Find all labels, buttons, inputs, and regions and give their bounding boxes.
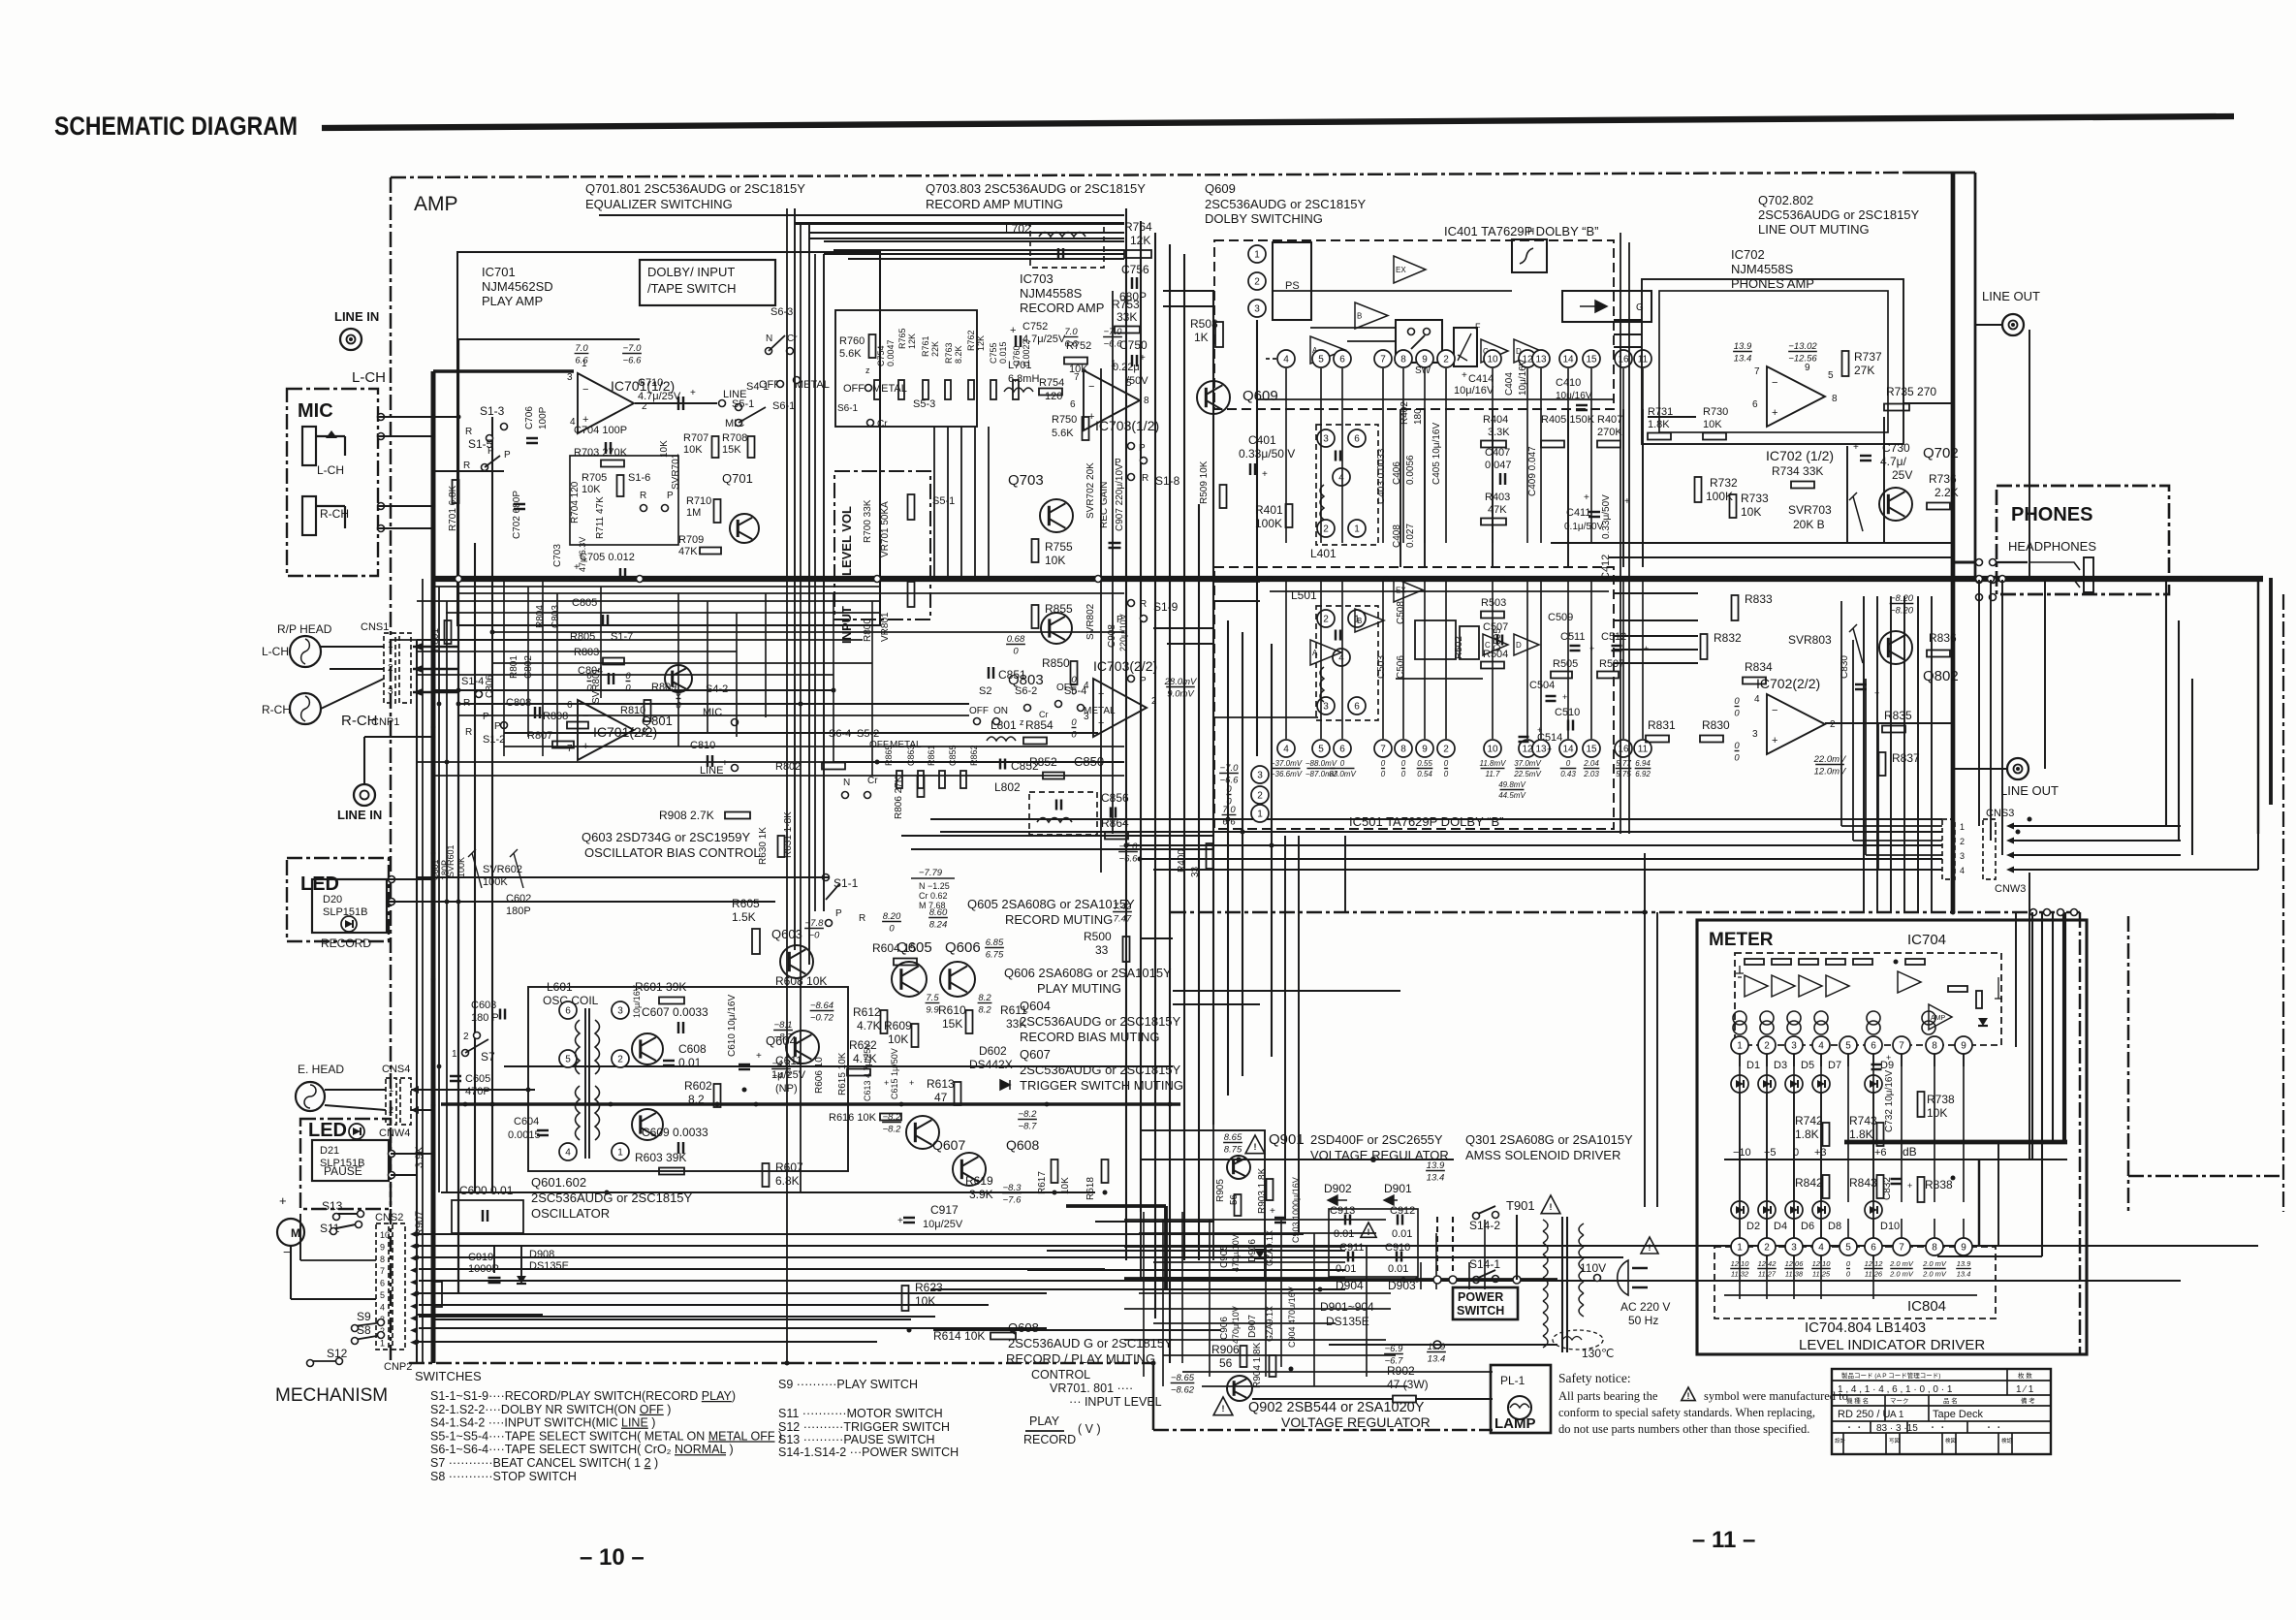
svg-text:0: 0 — [1340, 759, 1345, 768]
svg-text:R710: R710 — [686, 495, 711, 507]
svg-text:+: + — [1584, 492, 1589, 503]
svg-text:−8.2: −8.2 — [883, 1125, 901, 1135]
svg-text:DOLBY/ INPUT: DOLBY/ INPUT — [647, 265, 735, 279]
svg-text:SVR702 20K: SVR702 20K — [1085, 462, 1096, 519]
svg-text:M: M — [291, 1226, 300, 1240]
svg-text:R/P HEAD: R/P HEAD — [277, 622, 332, 636]
svg-text:0.22μ: 0.22μ — [1113, 362, 1140, 373]
svg-text:備 考: 備 考 — [2021, 1396, 2035, 1405]
svg-text:180 P: 180 P — [471, 1012, 499, 1024]
svg-text:R: R — [859, 913, 865, 924]
svg-text:C608: C608 — [678, 1042, 707, 1056]
svg-text:R837: R837 — [1892, 751, 1920, 765]
svg-text:2: 2 — [1257, 791, 1263, 802]
svg-text:3: 3 — [1323, 434, 1329, 445]
svg-text:−0: −0 — [809, 931, 821, 941]
svg-text:4: 4 — [565, 1148, 571, 1159]
svg-text:S1-1: S1-1 — [833, 876, 859, 890]
svg-text:Q607: Q607 — [932, 1137, 965, 1153]
svg-text:33K: 33K — [1117, 310, 1137, 324]
svg-text:IC702 (1/2): IC702 (1/2) — [1766, 448, 1834, 463]
svg-text:−8.65: −8.65 — [1171, 1373, 1195, 1383]
svg-text:R732: R732 — [1710, 476, 1738, 490]
svg-text:8.24: 8.24 — [929, 920, 948, 931]
svg-text:180P: 180P — [506, 905, 531, 917]
svg-text:3: 3 — [1791, 1041, 1797, 1052]
svg-text:R-CH: R-CH — [262, 703, 291, 716]
svg-text:IC401 TA7629P DOLBY “B”: IC401 TA7629P DOLBY “B” — [1444, 224, 1598, 238]
svg-text:MECHANISM: MECHANISM — [275, 1385, 388, 1406]
svg-text:5: 5 — [1828, 370, 1834, 381]
svg-text:−: − — [1088, 381, 1094, 393]
svg-text:RECORD BIAS MUTING: RECORD BIAS MUTING — [1020, 1030, 1159, 1044]
svg-text:C705 0.012: C705 0.012 — [580, 552, 635, 563]
svg-text:27K: 27K — [1854, 364, 1874, 377]
svg-text:+: + — [1270, 1206, 1275, 1217]
svg-text:−10: −10 — [1733, 1147, 1751, 1159]
svg-text:!: ! — [1222, 1404, 1225, 1414]
svg-text:0: 0 — [1734, 696, 1740, 707]
svg-text:枚 数: 枚 数 — [2018, 1371, 2032, 1380]
svg-text:S1-1~S1-9····RECORD/PLAY SWIT: S1-1~S1-9····RECORD/PLAY SWITCH(RECORD P… — [430, 1389, 736, 1403]
svg-text:D7: D7 — [1828, 1060, 1841, 1071]
svg-text:H: H — [1527, 227, 1534, 238]
svg-text:D21: D21 — [320, 1145, 339, 1157]
svg-text:2: 2 — [1323, 524, 1329, 535]
svg-text:R407: R407 — [1597, 414, 1622, 426]
svg-text:S6-2: S6-2 — [1015, 685, 1037, 697]
svg-text:5: 5 — [1845, 1243, 1851, 1254]
svg-text:C904 470μ/16V: C904 470μ/16V — [1287, 1286, 1297, 1348]
svg-text:SVR701: SVR701 — [671, 453, 681, 490]
svg-text:ON: ON — [993, 706, 1008, 716]
svg-text:3.3K: 3.3K — [1488, 427, 1510, 438]
svg-text:−5: −5 — [1764, 1147, 1777, 1159]
svg-text:Q601.602: Q601.602 — [531, 1175, 586, 1190]
svg-text:R705: R705 — [582, 472, 607, 484]
svg-text:S5-1: S5-1 — [932, 495, 955, 507]
svg-text:L-CH: L-CH — [352, 369, 386, 386]
svg-text:6: 6 — [1752, 399, 1758, 410]
svg-text:2.0 mV: 2.0 mV — [1889, 1259, 1914, 1268]
svg-text:1: 1 — [582, 359, 587, 369]
svg-text:−88.0mV: −88.0mV — [1305, 759, 1337, 768]
svg-text:0: 0 — [1734, 753, 1740, 764]
svg-text:3: 3 — [567, 372, 573, 383]
svg-text:0: 0 — [1381, 759, 1386, 768]
svg-text:N −1.25: N −1.25 — [919, 881, 950, 891]
svg-text:SVR803: SVR803 — [1788, 633, 1832, 647]
svg-text:S6-1: S6-1 — [772, 400, 795, 412]
svg-text:OSCILLATOR BIAS CONTROL: OSCILLATOR BIAS CONTROL — [584, 845, 761, 860]
svg-text:6: 6 — [1871, 1041, 1876, 1052]
svg-text:AMP: AMP — [1931, 1015, 1946, 1022]
svg-text:R700 33K: R700 33K — [863, 499, 873, 543]
svg-text:0: 0 — [1401, 759, 1406, 768]
svg-text:14: 14 — [1562, 745, 1574, 755]
svg-text:5: 5 — [565, 1055, 571, 1065]
svg-text:8.60: 8.60 — [929, 907, 948, 918]
svg-text:1: 1 — [388, 640, 393, 651]
svg-text:R750: R750 — [1052, 414, 1077, 426]
svg-text:A 1: A 1 — [1890, 1410, 1904, 1420]
svg-text:C615 1μ/50V: C615 1μ/50V — [890, 1048, 899, 1099]
svg-text:PLAY: PLAY — [1029, 1414, 1060, 1428]
svg-text:C511: C511 — [1560, 631, 1585, 643]
svg-text:S12 ··········TRIGGER SWITCH: S12 ··········TRIGGER SWITCH — [778, 1420, 950, 1434]
svg-text:10K: 10K — [1060, 1177, 1071, 1194]
svg-text:C754: C754 — [876, 345, 886, 366]
svg-text:+: + — [1262, 469, 1268, 480]
svg-text:R762: R762 — [966, 330, 976, 351]
svg-text:+: + — [1462, 370, 1467, 381]
svg-text:C613 4.7μ/25V: C613 4.7μ/25V — [863, 1043, 872, 1101]
svg-text:C508: C508 — [1396, 601, 1406, 624]
svg-text:R500: R500 — [1084, 930, 1112, 943]
svg-text:1: 1 — [1960, 822, 1965, 832]
svg-text:Q605 2SA608G or 2SA1015Y: Q605 2SA608G or 2SA1015Y — [967, 897, 1135, 911]
svg-text:−: − — [283, 1245, 291, 1259]
svg-text:−37.0mV: −37.0mV — [1271, 759, 1303, 768]
svg-text:12K: 12K — [907, 334, 917, 349]
svg-text:LED: LED — [300, 874, 339, 895]
svg-text:··· INPUT LEVEL: ··· INPUT LEVEL — [1069, 1395, 1162, 1409]
svg-text:4.7K: 4.7K — [857, 1019, 881, 1032]
svg-text:10K: 10K — [915, 1294, 935, 1308]
svg-text:2: 2 — [1254, 277, 1260, 288]
svg-text:10K: 10K — [1927, 1106, 1947, 1120]
svg-text:2SD400F or 2SC2655Y: 2SD400F or 2SC2655Y — [1310, 1132, 1443, 1147]
svg-text:47: 47 — [934, 1091, 948, 1104]
svg-text:SCHEMATIC DIAGRAM: SCHEMATIC DIAGRAM — [54, 111, 298, 141]
svg-text:EX: EX — [1396, 587, 1406, 595]
svg-text:10K: 10K — [888, 1032, 908, 1046]
svg-text:Q802: Q802 — [1923, 668, 1959, 684]
svg-text:C600 0.01: C600 0.01 — [459, 1184, 514, 1197]
svg-text:R731: R731 — [1648, 406, 1673, 418]
svg-text:83 · 3 ·15: 83 · 3 ·15 — [1876, 1423, 1918, 1434]
svg-text:0: 0 — [1734, 741, 1740, 751]
svg-text:9: 9 — [380, 1242, 385, 1252]
svg-text:R609: R609 — [884, 1019, 912, 1032]
svg-text:S11 ···········MOTOR SWITCH: S11 ···········MOTOR SWITCH — [778, 1407, 943, 1420]
svg-text:C405 10μ/16V: C405 10μ/16V — [1431, 423, 1442, 485]
svg-text:C756: C756 — [1121, 263, 1149, 276]
svg-text:4: 4 — [1283, 355, 1289, 365]
svg-text:R905: R905 — [1215, 1179, 1226, 1202]
svg-text:47K: 47K — [678, 546, 698, 557]
svg-text:S7 ···········BEAT CANCEL SW: S7 ···········BEAT CANCEL SWITCH( 1 2 ) — [430, 1456, 658, 1470]
svg-text:120: 120 — [1045, 391, 1062, 402]
svg-text:B: B — [1357, 617, 1362, 625]
svg-text:2SC536AUDG or 2SC1815Y: 2SC536AUDG or 2SC1815Y — [1020, 1014, 1181, 1029]
svg-text:2.2K: 2.2K — [1934, 486, 1959, 499]
svg-text:8.75: 8.75 — [1224, 1145, 1242, 1156]
svg-text:VOLTAGE REGULATOR: VOLTAGE REGULATOR — [1281, 1414, 1431, 1430]
svg-text:DS135E: DS135E — [1326, 1315, 1369, 1328]
svg-text:R862: R862 — [969, 745, 979, 766]
svg-text:R: R — [640, 491, 646, 501]
svg-text:R: R — [1140, 599, 1147, 610]
svg-text:4: 4 — [380, 1302, 385, 1312]
svg-text:0: 0 — [1071, 717, 1077, 728]
svg-text:2SC536AUDG or 2SC1815Y: 2SC536AUDG or 2SC1815Y — [1758, 207, 1920, 222]
svg-text:8: 8 — [642, 727, 647, 738]
svg-text:OSCILLATOR: OSCILLATOR — [531, 1206, 610, 1221]
svg-text:S8: S8 — [357, 1323, 371, 1337]
svg-text:C732 10μ/16V: C732 10μ/16V — [1884, 1070, 1895, 1132]
svg-text:470P: 470P — [465, 1086, 490, 1097]
svg-text:−7.79: −7.79 — [919, 868, 943, 878]
svg-text:−8.20: −8.20 — [1890, 606, 1914, 617]
svg-text:CNS4: CNS4 — [382, 1064, 410, 1075]
svg-text:INPUT: INPUT — [839, 606, 854, 644]
svg-text:0: 0 — [1013, 647, 1019, 657]
svg-text:IC501 TA7629P DOLBY “B”: IC501 TA7629P DOLBY “B” — [1349, 814, 1503, 829]
svg-text:8.2: 8.2 — [978, 1005, 991, 1016]
svg-text:R615 10K: R615 10K — [837, 1052, 848, 1096]
svg-text:270K: 270K — [1597, 427, 1622, 438]
svg-text:13: 13 — [1535, 355, 1547, 365]
svg-text:8.2K: 8.2K — [954, 345, 963, 364]
svg-text:+: + — [909, 1078, 914, 1088]
svg-text:D1: D1 — [1746, 1060, 1760, 1071]
svg-text:PHONES: PHONES — [2011, 504, 2092, 525]
svg-text:−7.0: −7.0 — [1220, 763, 1239, 774]
svg-text:C911: C911 — [1339, 1242, 1364, 1254]
svg-text:2: 2 — [617, 1055, 623, 1065]
svg-text:– 11 –: – 11 – — [1692, 1527, 1755, 1553]
svg-text:13.9: 13.9 — [1734, 341, 1752, 352]
svg-text:C750: C750 — [1119, 338, 1148, 352]
svg-text:R619: R619 — [965, 1174, 993, 1188]
svg-text:R733: R733 — [1741, 492, 1769, 505]
svg-text:20K B: 20K B — [1793, 518, 1825, 531]
svg-text:F: F — [1475, 322, 1481, 332]
svg-text:CNW3: CNW3 — [1995, 883, 2026, 895]
svg-text:13.4: 13.4 — [1957, 1270, 1971, 1279]
svg-text:3: 3 — [1960, 851, 1965, 861]
svg-text:1.8K: 1.8K — [1849, 1128, 1873, 1141]
svg-text:E. HEAD: E. HEAD — [298, 1063, 344, 1076]
svg-text:C603: C603 — [471, 1000, 496, 1011]
svg-text:R842: R842 — [1795, 1176, 1823, 1190]
svg-text:15K: 15K — [942, 1017, 962, 1031]
svg-text:−8.62: −8.62 — [1171, 1385, 1195, 1396]
svg-text:R602: R602 — [684, 1079, 712, 1093]
svg-text:IC704.804 LB1403: IC704.804 LB1403 — [1805, 1319, 1926, 1336]
svg-text:R865: R865 — [884, 745, 894, 766]
svg-text:LINE IN: LINE IN — [334, 309, 379, 324]
svg-text:2.0 mV: 2.0 mV — [1889, 1270, 1914, 1279]
svg-text:7.0: 7.0 — [1064, 327, 1078, 337]
svg-text:検図: 検図 — [1945, 1437, 1957, 1445]
svg-text:7: 7 — [1074, 372, 1080, 383]
svg-text:Q608: Q608 — [1008, 1320, 1039, 1335]
svg-text:NJM4558S: NJM4558S — [1731, 262, 1794, 276]
svg-text:2: 2 — [1764, 1041, 1770, 1052]
svg-text:2: 2 — [389, 1105, 393, 1115]
svg-text:7: 7 — [380, 1266, 385, 1276]
svg-text:R735 270: R735 270 — [1886, 385, 1936, 398]
svg-text:R753: R753 — [1112, 298, 1140, 311]
svg-text:6: 6 — [1339, 745, 1345, 755]
svg-text:D908: D908 — [529, 1249, 554, 1260]
svg-text:10K: 10K — [683, 444, 703, 456]
svg-text:2: 2 — [1764, 1243, 1770, 1254]
svg-text:Q605: Q605 — [896, 939, 932, 956]
svg-text:−8.7: −8.7 — [1019, 1122, 1037, 1132]
svg-text:C863: C863 — [906, 745, 916, 766]
svg-text:C851: C851 — [998, 668, 1026, 682]
svg-text:CNS2: CNS2 — [375, 1212, 403, 1223]
svg-text:4.7μ/25V: 4.7μ/25V — [1022, 334, 1066, 345]
svg-text:D907: D907 — [1247, 1315, 1258, 1338]
svg-text:2SC536AUD G or 2SC1815Y: 2SC536AUD G or 2SC1815Y — [1008, 1336, 1173, 1350]
svg-text:15: 15 — [1586, 745, 1597, 755]
svg-text:+: + — [1907, 1181, 1912, 1191]
svg-text:C755: C755 — [989, 342, 998, 364]
svg-text:PAUSE: PAUSE — [324, 1164, 362, 1178]
svg-text:−7.0: −7.0 — [1119, 842, 1138, 852]
svg-text:z: z — [865, 365, 870, 375]
svg-text:Q603 2SD734G or 2SC1959Y: Q603 2SD734G or 2SC1959Y — [582, 830, 750, 844]
svg-text:−13.02: −13.02 — [1788, 341, 1817, 352]
svg-text:50 Hz: 50 Hz — [1628, 1314, 1658, 1327]
svg-text:R738: R738 — [1927, 1093, 1955, 1106]
svg-text:2: 2 — [1151, 696, 1157, 707]
svg-text:R701 6.8K: R701 6.8K — [448, 485, 458, 531]
svg-text:3: 3 — [1323, 702, 1329, 713]
svg-text:100K: 100K — [456, 857, 466, 877]
svg-text:symbol were manufactured to: symbol were manufactured to — [1704, 1389, 1848, 1403]
svg-text:1: 1 — [617, 1148, 623, 1159]
svg-text:C850: C850 — [1074, 754, 1104, 769]
svg-text:0.55: 0.55 — [1417, 759, 1432, 768]
svg-text:C610 10μ/16V: C610 10μ/16V — [727, 995, 738, 1057]
svg-text:8: 8 — [1932, 1041, 1937, 1052]
svg-text:CNP2: CNP2 — [384, 1361, 412, 1373]
svg-text:10μ/16V: 10μ/16V — [632, 985, 642, 1018]
svg-text:C602: C602 — [506, 893, 531, 905]
svg-text:1: 1 — [380, 1339, 385, 1349]
svg-text:25V: 25V — [1892, 468, 1912, 482]
svg-text:49.8mV: 49.8mV — [1498, 780, 1525, 789]
svg-text:C730: C730 — [1882, 441, 1910, 455]
svg-text:L501: L501 — [1291, 588, 1317, 602]
svg-text:LINE IN: LINE IN — [337, 808, 382, 822]
svg-text:8.2: 8.2 — [978, 993, 991, 1003]
svg-text:6: 6 — [565, 1006, 571, 1017]
svg-text:MIC: MIC — [298, 400, 333, 422]
svg-text:R754: R754 — [1039, 377, 1064, 389]
svg-text:0: 0 — [1226, 784, 1232, 795]
svg-text:13: 13 — [1535, 745, 1547, 755]
svg-text:R709: R709 — [678, 534, 704, 546]
svg-text:R854: R854 — [1025, 718, 1054, 732]
svg-text:!: ! — [1649, 1243, 1651, 1253]
svg-text:conform to special safety: conform to special safety standards. Whe… — [1558, 1406, 1815, 1419]
svg-text:1K: 1K — [1194, 331, 1209, 344]
svg-text:SVR703: SVR703 — [1788, 503, 1832, 517]
svg-text:0: 0 — [1071, 730, 1077, 741]
svg-text:R838: R838 — [1925, 1178, 1953, 1191]
svg-text:6: 6 — [1354, 434, 1360, 445]
svg-text:Q703: Q703 — [1008, 472, 1044, 489]
svg-text:LEVEL VOL: LEVEL VOL — [839, 506, 854, 576]
svg-text:RECORD / PLAY MUTING: RECORD / PLAY MUTING — [1006, 1351, 1155, 1366]
svg-text:8.2: 8.2 — [688, 1093, 705, 1106]
svg-text:POWER: POWER — [1458, 1290, 1503, 1304]
svg-text:D902: D902 — [1324, 1182, 1352, 1195]
svg-text:R850: R850 — [1042, 656, 1070, 670]
svg-text:LAMP: LAMP — [1494, 1415, 1536, 1432]
svg-text:R830: R830 — [1702, 718, 1730, 732]
svg-text:RECORD: RECORD — [321, 937, 371, 950]
svg-text:C806: C806 — [485, 675, 495, 698]
svg-text:Cr: Cr — [867, 776, 878, 786]
svg-text:PLAY MUTING: PLAY MUTING — [1037, 981, 1121, 996]
svg-text:R730: R730 — [1703, 406, 1728, 418]
svg-text:7.5: 7.5 — [926, 993, 939, 1003]
svg-text:22.5mV: 22.5mV — [1513, 770, 1541, 778]
svg-text:2: 2 — [1443, 355, 1449, 365]
svg-text:+: + — [690, 388, 696, 398]
svg-text:1: 1 — [1737, 1041, 1743, 1052]
svg-text:Q703.803 2SC536AUDG or 2SC: Q703.803 2SC536AUDG or 2SC1815Y — [926, 181, 1146, 196]
svg-text:設計: 設計 — [1835, 1437, 1846, 1445]
svg-text:44.5mV: 44.5mV — [1498, 791, 1525, 800]
svg-text:9: 9 — [1422, 355, 1428, 365]
svg-text:A: A — [1312, 649, 1318, 657]
svg-text:12K: 12K — [1130, 234, 1150, 247]
svg-text:Cr: Cr — [1039, 710, 1049, 719]
svg-text:P: P — [835, 908, 842, 919]
svg-text:0.0047: 0.0047 — [886, 339, 896, 366]
svg-text:Cr 0.62: Cr 0.62 — [919, 891, 948, 901]
svg-text:3: 3 — [1257, 771, 1263, 781]
svg-text:RECORD: RECORD — [1023, 1433, 1076, 1446]
svg-text:S6-1: S6-1 — [837, 403, 859, 414]
svg-text:0.54: 0.54 — [1417, 770, 1432, 778]
svg-text:C503: C503 — [1376, 655, 1387, 679]
svg-text:−36.6mV: −36.6mV — [1271, 770, 1303, 778]
svg-text:S6-4: S6-4 — [829, 728, 851, 740]
svg-text:IC703(2/2): IC703(2/2) — [1093, 658, 1157, 674]
svg-text:6: 6 — [1070, 399, 1076, 410]
svg-text:RECORD MUTING: RECORD MUTING — [1005, 912, 1113, 927]
svg-text:6.85: 6.85 — [986, 937, 1004, 948]
svg-text:−8.20: −8.20 — [1890, 593, 1914, 604]
svg-text:METAL: METAL — [1084, 706, 1116, 716]
svg-text:10: 10 — [1487, 745, 1498, 755]
svg-text:Q702.802: Q702.802 — [1758, 193, 1813, 207]
svg-text:R763: R763 — [944, 342, 954, 364]
svg-text:品 名: 品 名 — [1943, 1396, 1958, 1405]
svg-text:S1-8: S1-8 — [1155, 474, 1180, 488]
svg-text:DS135E: DS135E — [529, 1260, 569, 1272]
svg-text:IC703(1/2): IC703(1/2) — [1095, 418, 1159, 433]
svg-text:+: + — [582, 414, 588, 426]
svg-text:100K: 100K — [1255, 517, 1282, 530]
svg-text:−8.64: −8.64 — [810, 1001, 833, 1011]
svg-text:マーク: マーク — [1890, 1397, 1909, 1405]
svg-text:S1-3: S1-3 — [480, 404, 505, 418]
svg-text:4: 4 — [1818, 1041, 1824, 1052]
svg-text:15K: 15K — [722, 444, 741, 456]
svg-text:5: 5 — [1126, 378, 1132, 389]
svg-text:TRIGGER SWITCH MUTING: TRIGGER SWITCH MUTING — [1020, 1078, 1183, 1093]
